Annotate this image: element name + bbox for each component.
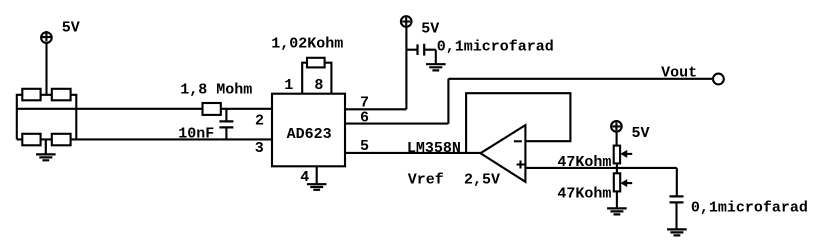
svg-text:3: 3 xyxy=(255,140,264,157)
svg-text:2: 2 xyxy=(255,112,264,129)
bridge strain gauge resistor (bottom right) xyxy=(52,134,71,146)
capacitor 0,1microfarad (Vref filter) xyxy=(670,196,684,202)
svg-text:5V: 5V xyxy=(421,20,439,37)
wire upper pot to junction xyxy=(616,163,618,168)
wire pin 7 to 5V supply xyxy=(345,27,406,110)
svg-text:10nF: 10nF xyxy=(178,126,214,143)
ground (decoupling cap) xyxy=(426,64,446,70)
svg-text:2,5V: 2,5V xyxy=(464,172,500,189)
wire pin 6 to Vout xyxy=(345,79,712,124)
ground (divider) xyxy=(607,208,627,214)
svg-text:1: 1 xyxy=(284,77,293,94)
bridge strain gauge resistor (top right) xyxy=(52,89,71,101)
wire bridge midtap to 1,8 Mohm / pin 2 net xyxy=(17,108,203,110)
potentiometer 47Kohm (lower) xyxy=(614,173,632,191)
svg-text:Vout: Vout xyxy=(661,65,697,82)
wire op-amp noninverting input to divider junction xyxy=(525,167,676,169)
wire divider junction to filter capacitor xyxy=(676,168,678,196)
wire 5V to bridge top xyxy=(45,43,47,95)
ground (Vref filter cap) xyxy=(667,229,687,235)
ground (bridge) xyxy=(36,139,56,160)
resistor 1,8 Mohm xyxy=(203,103,221,115)
capacitor 10nF xyxy=(219,109,233,140)
svg-text:8: 8 xyxy=(314,77,323,94)
wire bridge bottom edge / pin 3 net xyxy=(17,138,220,140)
potentiometer 47Kohm (upper) xyxy=(614,146,633,164)
wire lower pot to ground xyxy=(616,191,618,208)
svg-text:47Kohm: 47Kohm xyxy=(557,154,611,171)
node Vout terminal xyxy=(713,74,724,85)
ground (pin 4) xyxy=(307,184,327,190)
wire decoupling capacitor to ground xyxy=(424,50,436,64)
svg-text:47Kohm: 47Kohm xyxy=(557,186,611,203)
wire 1,8 Mohm to pin 2 xyxy=(221,108,272,110)
wire supply to decoupling capacitor xyxy=(406,49,417,51)
wire bridge left edge xyxy=(16,94,18,140)
svg-text:0,1microfarad: 0,1microfarad xyxy=(691,200,808,217)
wire pin 4 stub xyxy=(316,166,318,184)
svg-text:5V: 5V xyxy=(62,20,80,37)
wire pin 3 segment to AD623 xyxy=(219,138,272,140)
wire feedback loop (output to inverting input) xyxy=(466,93,570,153)
wire bridge top edge xyxy=(17,94,77,96)
svg-text:LM358N: LM358N xyxy=(407,140,461,157)
capacitor 0,1microfarad (supply decoupling) xyxy=(418,44,425,56)
svg-text:Vref: Vref xyxy=(408,172,444,189)
svg-text:AD623: AD623 xyxy=(287,126,332,143)
wire pin 5 to op-amp output xyxy=(345,152,481,154)
power supply +5V (AD623 supply) xyxy=(401,16,412,27)
op-amp U2 LM358N xyxy=(481,125,526,182)
wire pin 8 to gain resistor xyxy=(325,63,332,94)
resistor 1,02Kohm (gain set) xyxy=(307,58,325,68)
bridge strain gauge resistor (bottom left) xyxy=(22,134,40,146)
wire pin 1 to gain resistor xyxy=(302,63,307,94)
svg-text:1,02Kohm: 1,02Kohm xyxy=(271,36,343,53)
wire filter capacitor to ground xyxy=(675,203,677,230)
svg-text:0,1microfarad: 0,1microfarad xyxy=(437,38,554,55)
svg-text:5V: 5V xyxy=(632,125,650,142)
op-amp U1 AD623 body xyxy=(272,94,345,167)
wire bridge right edge xyxy=(75,94,77,140)
wire junction to lower potentiometer xyxy=(616,168,618,173)
power supply +5V (bridge excitation) xyxy=(41,31,52,43)
wire 5V to upper potentiometer xyxy=(616,132,618,146)
bridge strain gauge resistor (top left) xyxy=(22,89,40,101)
svg-text:1,8 Mohm: 1,8 Mohm xyxy=(180,82,252,99)
power supply +5V (reference divider) xyxy=(611,121,622,132)
